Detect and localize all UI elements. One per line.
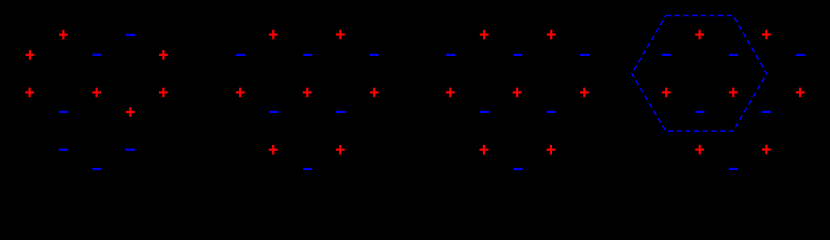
charge - on atom B3 (shared upper vertex) xyxy=(93,54,102,56)
charge - on atom A4 (top of right ring) xyxy=(126,34,135,36)
structure 2 (second resonance form) xyxy=(236,30,379,170)
charge + on atom C3 xyxy=(729,88,738,98)
charge - on atom B1 xyxy=(446,54,455,56)
charge - on atom E4 (lower-right of bottom ring) xyxy=(126,149,135,151)
charge + on atom B1 (upper-left of left ring) xyxy=(26,50,35,60)
charge - on atom D4 xyxy=(762,111,771,113)
charge - on atom B3 xyxy=(303,54,312,56)
charge + on atom E2 xyxy=(269,145,278,155)
charge + on atom A2 (top of left ring) xyxy=(59,30,68,40)
charge - on atom D2 (upper-left of bottom ring) xyxy=(59,111,68,113)
charge + on atom A2 xyxy=(695,30,704,40)
charge + on atom C5 xyxy=(796,88,805,98)
charge + on atom B5 (upper-right of right ring) xyxy=(159,50,168,60)
charge + on atom E2 xyxy=(695,145,704,155)
charge - on atom D4 xyxy=(547,111,556,113)
structure 3 (third resonance form) xyxy=(446,30,589,170)
charge + on atom C1 xyxy=(236,88,245,98)
charge + on atom C5 xyxy=(370,88,379,98)
charge + on atom C3 (central shared vertex) xyxy=(92,88,101,98)
structure 1 (left resonance form) xyxy=(25,30,168,170)
charge - on atom D4 xyxy=(336,111,345,113)
charge + on atom E2 xyxy=(480,145,489,155)
charge + on atom A4 xyxy=(762,30,771,40)
charge - on atom D2 xyxy=(270,111,279,113)
charge - on atom B5 xyxy=(796,54,805,56)
charge - on atom B1 xyxy=(662,54,671,56)
charge - on atom D2 xyxy=(695,111,704,113)
charge - on atom D2 xyxy=(480,111,489,113)
aromatic delocalization ring (blue dashed hexagon) xyxy=(632,16,767,132)
charge + on atom E4 xyxy=(547,145,556,155)
charge + on atom C3 xyxy=(513,88,522,98)
charge + on atom C3 xyxy=(303,88,312,98)
charge - on atom F3 xyxy=(303,168,312,170)
charge - on atom B1 xyxy=(236,54,245,56)
charge - on atom F3 xyxy=(514,168,523,170)
charge - on atom E2 (lower-left of bottom ring) xyxy=(59,149,68,151)
charge + on atom A4 xyxy=(336,30,345,40)
charge + on atom A2 xyxy=(480,30,489,40)
charge - on atom F3 xyxy=(729,168,738,170)
charge + on atom A4 xyxy=(547,30,556,40)
charge + on atom C5 xyxy=(580,88,589,98)
charge + on atom C1 xyxy=(446,88,455,98)
charge - on atom F3 (bottom of bottom ring) xyxy=(92,168,101,170)
charge - on atom B5 xyxy=(370,54,379,56)
charge + on atom C1 xyxy=(662,88,671,98)
charge - on atom B3 xyxy=(513,54,522,56)
charge + on atom E4 xyxy=(762,145,771,155)
charge + on atom A2 xyxy=(269,30,278,40)
charge + on atom E4 xyxy=(336,145,345,155)
charge - on atom B3 xyxy=(729,54,738,56)
charge + on atom C1 (lower-left of left ring) xyxy=(25,88,34,98)
structure 4 (delocalized form with aromatic ring) xyxy=(632,16,805,171)
charge + on atom D4 (upper-right of bottom ring) xyxy=(126,107,135,117)
charge + on atom C5 (lower-right of right ring) xyxy=(159,88,168,98)
charge - on atom B5 xyxy=(580,54,589,56)
